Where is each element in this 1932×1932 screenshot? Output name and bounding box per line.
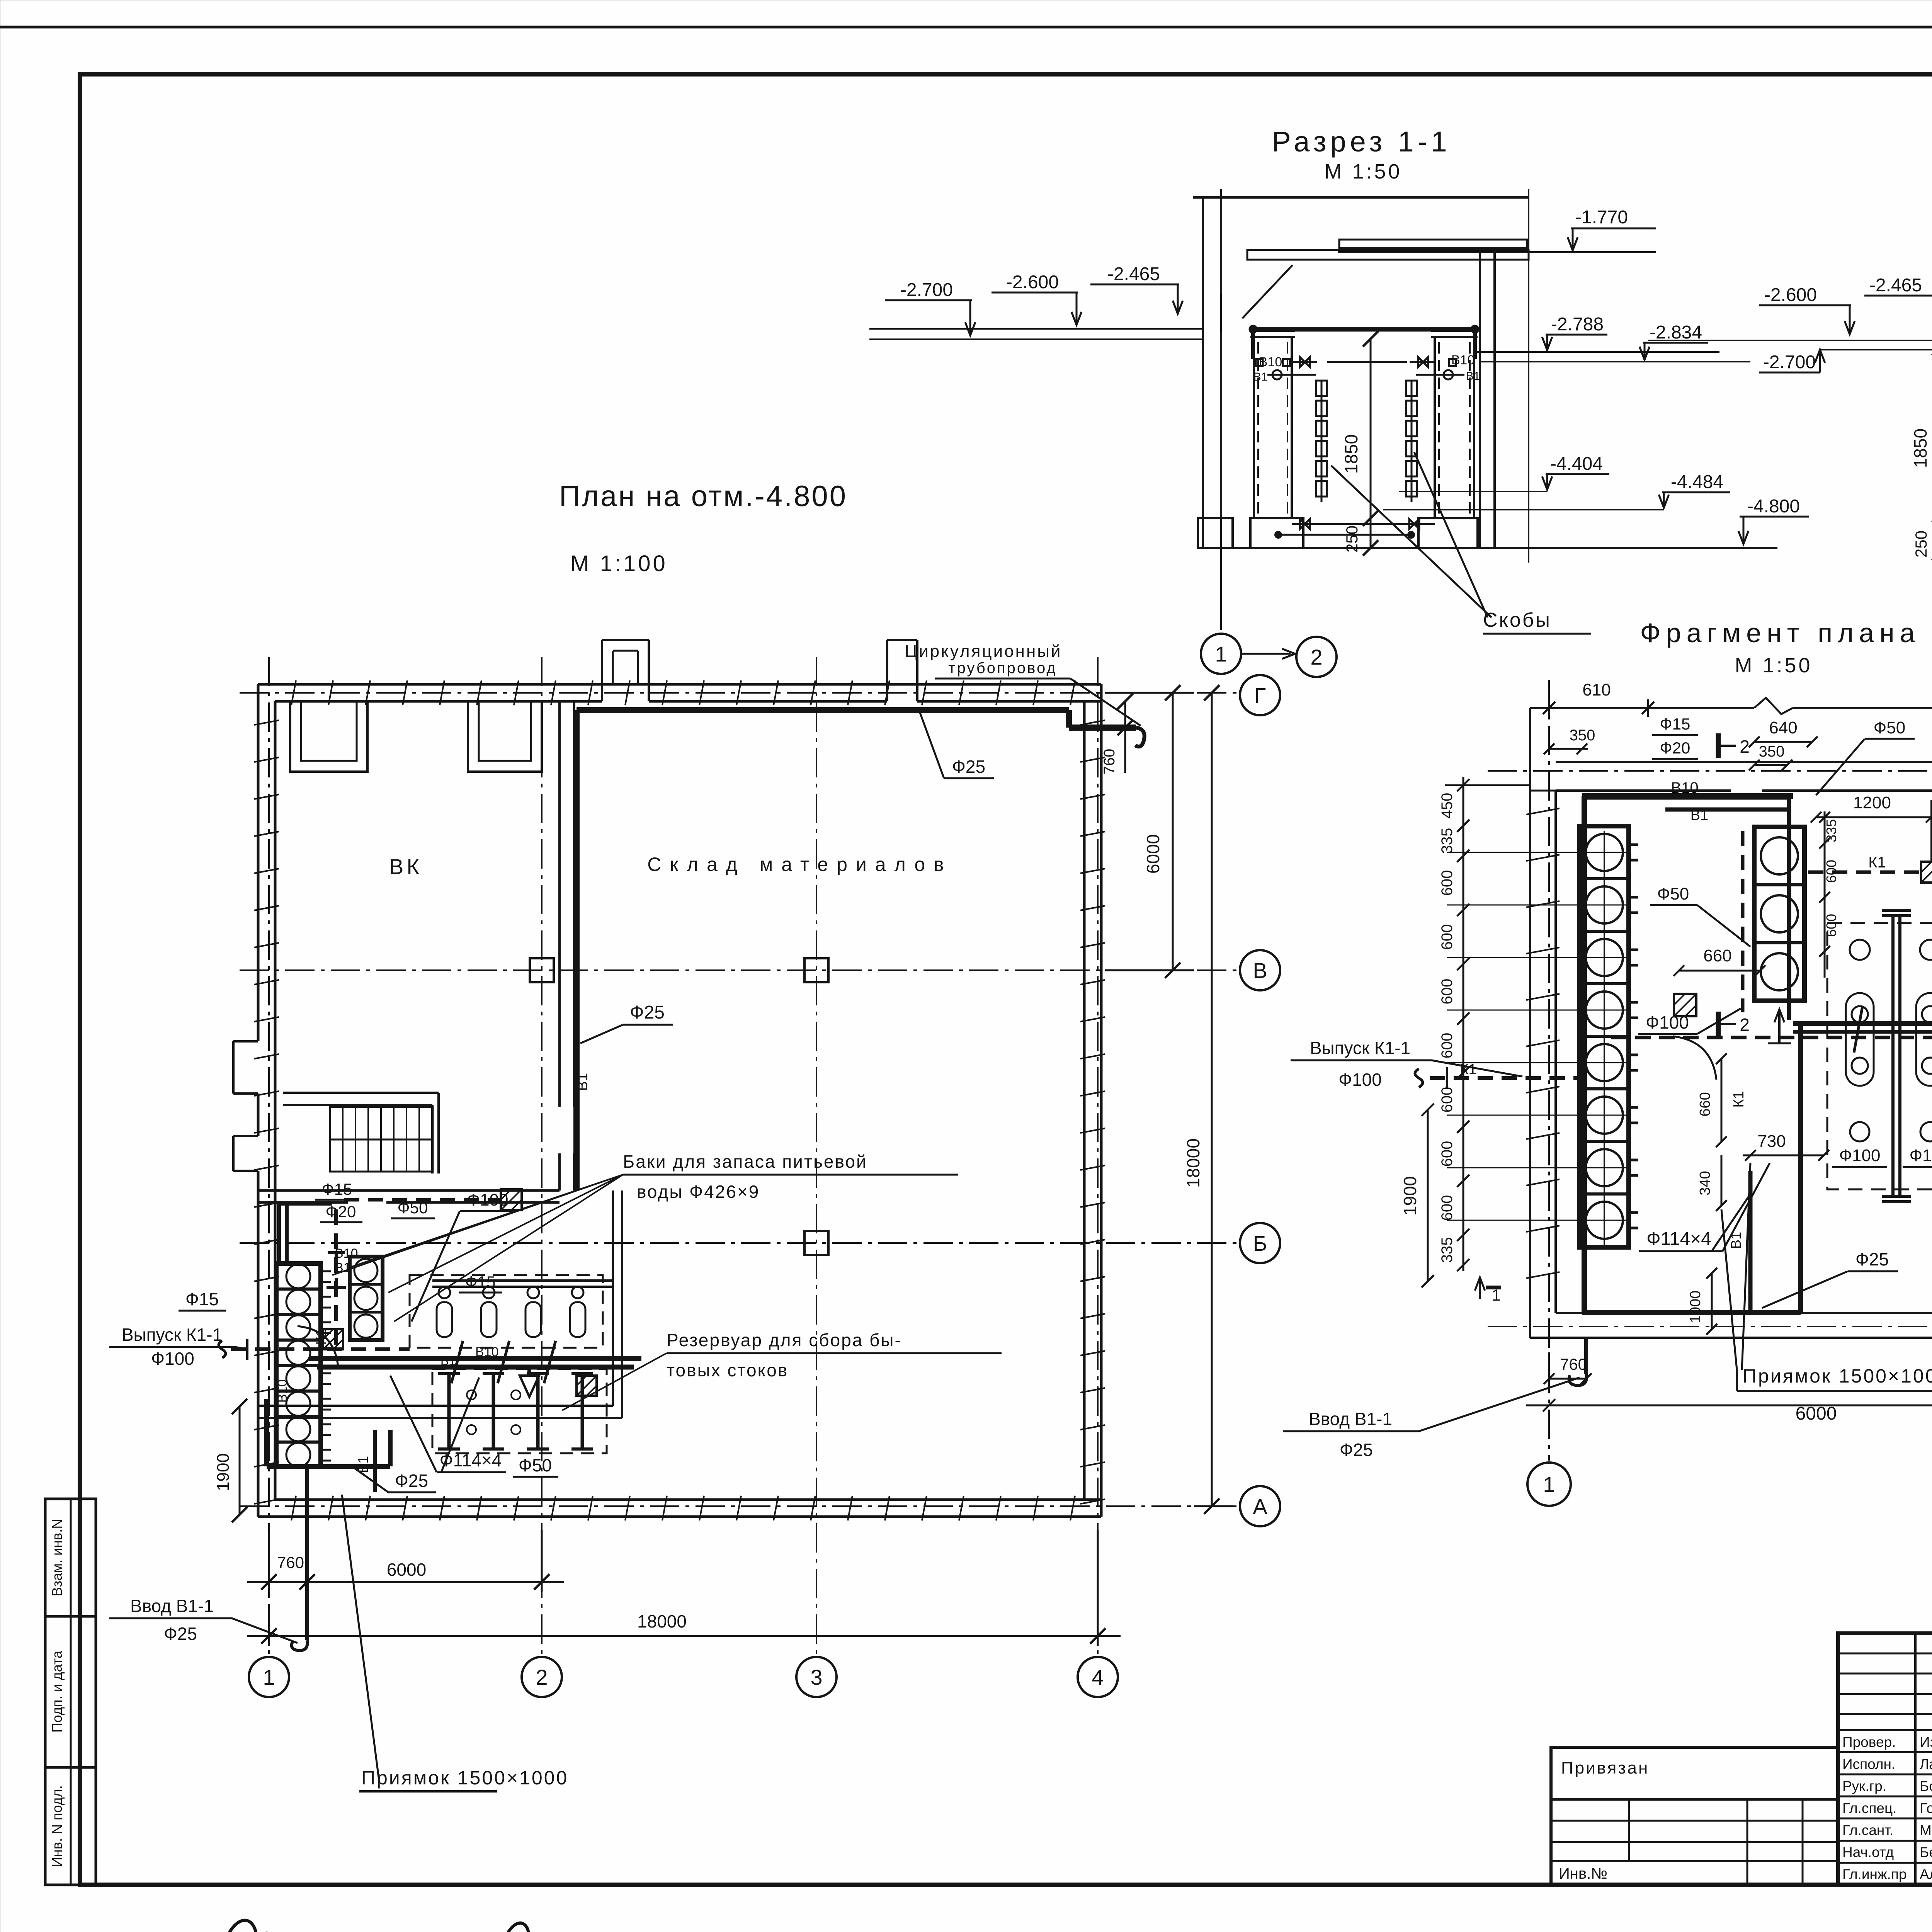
label Приямок 1500х1000: [342, 1495, 568, 1791]
label Баки для запаса питьевой воды: [332, 1151, 958, 1321]
fragment axis line А: [1488, 1326, 1932, 1327]
inner wall ВК/Склад: [560, 701, 574, 1190]
svg-text:Ф25: Ф25: [1340, 1440, 1373, 1460]
К1 dashed vertical: [334, 1209, 338, 1349]
svg-text:Гомон: Гомон: [1920, 1800, 1932, 1816]
svg-text:Ф15: Ф15: [185, 1289, 219, 1309]
svg-text:6000: 6000: [1796, 1403, 1837, 1424]
fragment dim 660 vertical: [1697, 1053, 1727, 1147]
level -4.800 (1-1): [1738, 496, 1809, 544]
svg-text:Гл.спец.: Гл.спец.: [1842, 1800, 1896, 1816]
svg-text:660: 660: [1703, 946, 1731, 965]
handwriting пров date коп: [165, 1920, 560, 1932]
svg-text:1850: 1850: [1910, 429, 1930, 468]
svg-text:пров.: пров.: [165, 1930, 209, 1932]
svg-text:Ввод В1-1: Ввод В1-1: [1309, 1409, 1392, 1429]
svg-text:1: 1: [1543, 1472, 1555, 1497]
tank circles: [286, 1264, 331, 1467]
svg-text:Фрагмент плана: Фрагмент плана: [1640, 618, 1920, 648]
section 1-1 valves bottom: [1275, 519, 1435, 538]
svg-text:Мафтер: Мафтер: [1920, 1822, 1932, 1838]
svg-text:Ф15: Ф15: [465, 1273, 496, 1291]
dim 18000 right: [1183, 685, 1233, 1514]
left margin box Инв. N подл.: [45, 1767, 96, 1885]
К1 dashed upper horizontal: [344, 1189, 522, 1210]
К1 dashed horizontal outlet: [219, 1339, 410, 1360]
svg-text:Ф50: Ф50: [1874, 718, 1905, 737]
svg-text:Резервуар для сбора бы-: Резервуар для сбора бы-: [667, 1330, 902, 1350]
level -2.600 left: [992, 272, 1082, 325]
level lines 2-2 left: [1648, 340, 1932, 350]
svg-text:1: 1: [263, 1665, 275, 1689]
section 1-1 dim 250: [1343, 518, 1378, 556]
axis circle 2: [522, 1657, 562, 1697]
svg-text:Ф25: Ф25: [952, 757, 985, 777]
svg-text:М 1:100: М 1:100: [570, 551, 668, 576]
svg-text:660: 660: [1697, 1092, 1713, 1116]
svg-text:Белан: Белан: [1920, 1844, 1932, 1860]
fragment mini chain 335/600/600: [1819, 811, 1839, 978]
svg-text:Бондаренко: Бондаренко: [1920, 1778, 1932, 1794]
outer wall left: [258, 684, 275, 1517]
svg-text:600: 600: [1439, 1033, 1456, 1059]
section 1-1 axis line 2: [1528, 189, 1529, 563]
svg-text:В1: В1: [1466, 370, 1480, 383]
fragment dim 660: [1673, 946, 1765, 976]
dim 760 bottom: [255, 1530, 321, 1592]
svg-text:К1: К1: [313, 1329, 329, 1345]
fragment К1 dashed horizontal top: [1808, 862, 1932, 883]
svg-text:-2.600: -2.600: [1764, 285, 1817, 305]
left margin box Взам. инв.N: [45, 1499, 96, 1616]
pipe В10 В1 pair into tank room: [277, 1204, 332, 1263]
fragment В1 riser right of tanks: [1787, 797, 1791, 1020]
svg-text:Приямок 1500×1000: Приямок 1500×1000: [361, 1767, 568, 1789]
section 1-1 ceiling slabs: [1242, 240, 1529, 318]
interior column squares: [530, 958, 554, 982]
svg-text:600: 600: [1439, 924, 1456, 950]
svg-text:Ф25: Ф25: [1855, 1249, 1889, 1269]
label Ф114х4: [390, 1376, 506, 1472]
label Ф15 mid: [459, 1273, 502, 1293]
fragment axis line 1: [1548, 680, 1550, 1461]
axis line Г: [240, 692, 1240, 694]
fragment bottom wall: [1530, 1294, 1932, 1338]
svg-text:В1: В1: [1728, 1232, 1744, 1249]
svg-text:Ф100: Ф100: [1910, 1146, 1932, 1165]
svg-text:Привязан: Привязан: [1561, 1759, 1649, 1777]
svg-text:1200: 1200: [1853, 793, 1891, 812]
fragment label Ф25 right: [1762, 1249, 1898, 1308]
axis circle 1: [249, 1657, 289, 1697]
fragment pipe band В10 В1 К1: [1611, 1007, 1932, 1053]
svg-text:Ф100: Ф100: [151, 1349, 194, 1369]
svg-text:трубопровод: трубопровод: [948, 660, 1057, 677]
svg-text:760: 760: [1560, 1355, 1587, 1373]
svg-text:В10: В10: [1259, 355, 1282, 369]
svg-text:2: 2: [1740, 1015, 1750, 1035]
svg-text:335: 335: [1439, 1237, 1456, 1263]
label Ввод В1-1 Ф25: [109, 1596, 298, 1644]
svg-text:-4.484: -4.484: [1671, 472, 1723, 492]
svg-text:1850: 1850: [1341, 434, 1361, 474]
pipe drop to reservoir: [529, 1367, 597, 1396]
fragment labels Ф15 Ф20: [1652, 715, 1698, 759]
svg-text:Ф15: Ф15: [1660, 715, 1690, 733]
svg-text:3: 3: [810, 1665, 822, 1689]
fragment flow arrow: [1768, 1009, 1791, 1043]
svg-text:Ф15: Ф15: [322, 1180, 352, 1198]
svg-text:Ф100: Ф100: [467, 1190, 509, 1209]
axis circle 3: [796, 1657, 837, 1697]
corridor wall: [283, 1093, 439, 1173]
svg-text:600: 600: [1439, 979, 1456, 1005]
section 1-1 pipe В10: [1250, 326, 1478, 359]
stall dividers: [438, 1374, 593, 1449]
title block grid: [1838, 1633, 1932, 1885]
tank room walls thick: [1582, 796, 1801, 1313]
axis line 2: [541, 657, 543, 1657]
svg-text:760: 760: [1101, 749, 1118, 775]
svg-text:-2.465: -2.465: [1107, 264, 1160, 284]
level lines into section: [869, 329, 1203, 339]
door arc: [298, 1326, 338, 1367]
svg-text:Альшиц: Альшиц: [1920, 1866, 1932, 1882]
svg-text:Выпуск К1-1: Выпуск К1-1: [1310, 1038, 1410, 1058]
section 1-1 labels В10 В1: [1253, 353, 1480, 383]
svg-text:Ф25: Ф25: [164, 1624, 197, 1644]
left wall pilaster 1: [233, 1041, 258, 1094]
fragment label Приямок: [1721, 1163, 1932, 1391]
fragment label Ф100: [1638, 1009, 1741, 1034]
level -2.788: [1542, 314, 1607, 350]
dim 1900 left: [214, 1399, 247, 1522]
svg-text:М 1:50: М 1:50: [1735, 654, 1812, 677]
fragment top wall: [1556, 762, 1932, 791]
svg-text:В10: В10: [1451, 353, 1475, 367]
outer wall top: [258, 684, 1101, 701]
svg-text:-1.770: -1.770: [1575, 207, 1628, 228]
svg-text:Подп. и дата: Подп. и дата: [49, 1650, 65, 1733]
section 1-1 right tank: [1431, 331, 1478, 518]
level -2.465 (2-2): [1864, 275, 1932, 321]
svg-text:-2.465: -2.465: [1869, 275, 1922, 296]
label Ф50: [391, 1199, 435, 1218]
axis line Б: [240, 1242, 1240, 1244]
section 1-1 right wall: [1480, 250, 1495, 548]
svg-text:760: 760: [277, 1553, 304, 1571]
svg-text:Ф100: Ф100: [1839, 1146, 1881, 1165]
paper top edge line: [0, 26, 1932, 29]
svg-text:В: В: [1253, 958, 1267, 983]
fragment pipe В10 top: [1586, 797, 1789, 810]
label Ф25 top: [920, 712, 994, 778]
svg-text:Ф25: Ф25: [395, 1471, 428, 1491]
svg-text:План на отм.-4.800: План на отм.-4.800: [559, 480, 847, 513]
axis circle Г: [1240, 675, 1280, 715]
svg-text:Выпуск К1-1: Выпуск К1-1: [122, 1325, 222, 1345]
svg-text:Гл.инж.пр: Гл.инж.пр: [1842, 1866, 1907, 1882]
section 1-1 top line: [1193, 196, 1529, 199]
label Резервуар для сбора бытовых стоков (plan): [562, 1330, 1002, 1410]
fragment labels Ф100 Ф100: [1832, 1146, 1932, 1167]
svg-text:-4.404: -4.404: [1550, 454, 1603, 474]
svg-text:К1: К1: [1731, 1091, 1747, 1107]
section 1-1 floor line: [1201, 547, 1777, 549]
svg-text:600: 600: [1439, 1141, 1456, 1167]
svg-text:Ф50: Ф50: [1657, 884, 1689, 903]
svg-text:2: 2: [1310, 645, 1322, 669]
svg-text:Ф100: Ф100: [1338, 1070, 1382, 1090]
svg-text:В1: В1: [1253, 371, 1268, 383]
svg-text:Ф20: Ф20: [326, 1202, 356, 1221]
svg-text:М 1:50: М 1:50: [1324, 160, 1402, 183]
dim 6000 bottom: [247, 1530, 564, 1592]
fragment dim 350 second: [1749, 743, 1793, 770]
svg-text:335: 335: [1823, 819, 1839, 842]
section 1-1 dim 1850: [1341, 331, 1378, 526]
svg-text:250: 250: [1912, 531, 1930, 558]
fragment dim 640: [1749, 718, 1818, 747]
axis line 4: [1097, 657, 1099, 1657]
svg-text:товых стоков: товых стоков: [667, 1360, 788, 1380]
svg-text:335: 335: [1439, 828, 1456, 854]
section 1-1 valves top: [1256, 357, 1464, 379]
label Скобы: [1331, 452, 1591, 634]
fragment reservoir dashed rect: [1827, 923, 1932, 1189]
fragment section mark 1: [1475, 1277, 1501, 1304]
svg-text:В1: В1: [1690, 807, 1708, 823]
fragment tank battery box: [1580, 826, 1629, 1247]
svg-text:В10: В10: [475, 1345, 499, 1359]
fragment dim 610: [1543, 680, 1654, 717]
svg-text:-2.600: -2.600: [1006, 272, 1059, 293]
svg-text:Провер.: Провер.: [1842, 1734, 1896, 1750]
fragment labels В10 В1 top: [1671, 779, 1708, 823]
section 2-2 dim 250: [1912, 514, 1932, 560]
svg-text:1900: 1900: [214, 1453, 233, 1491]
svg-text:В10: В10: [335, 1246, 358, 1261]
svg-text:610: 610: [1582, 680, 1611, 699]
vestibule room 2: [468, 701, 542, 772]
svg-text:Ф50: Ф50: [398, 1199, 428, 1217]
svg-text:Взам. инв.N: Взам. инв.N: [49, 1519, 65, 1596]
svg-text:600: 600: [1439, 1195, 1456, 1221]
svg-text:600: 600: [1439, 1087, 1456, 1113]
fragment dim 350: [1544, 727, 1595, 754]
fragment label Ф114х4: [1639, 1163, 1770, 1251]
sanitary block top wall: [258, 1190, 560, 1202]
svg-text:340: 340: [1697, 1171, 1713, 1195]
svg-text:Гл.сант.: Гл.сант.: [1842, 1822, 1893, 1838]
label Ф100 (upper): [412, 1190, 514, 1321]
svg-text:Изюмова: Изюмова: [1920, 1734, 1932, 1750]
svg-text:-2.700: -2.700: [900, 280, 953, 300]
level -4.404: [1542, 454, 1609, 490]
table Привязан: [1551, 1747, 1838, 1885]
fragment dim 340 vertical: [1697, 1155, 1727, 1211]
fragment left wall hatch: [1526, 808, 1560, 1278]
pipe slashes: [451, 1341, 556, 1383]
level -1.770: [1568, 207, 1656, 250]
pipe fittings cross: [327, 1253, 346, 1297]
pipe В1 top horizontal: [577, 710, 1145, 747]
svg-text:Ф100: Ф100: [1646, 1012, 1689, 1032]
axis line 1: [268, 657, 270, 1657]
fragment label Ввод В1-1: [1283, 1378, 1580, 1460]
svg-text:350: 350: [1759, 743, 1785, 760]
fragment building left wall: [1530, 708, 1556, 1338]
svg-text:воды Ф426×9: воды Ф426×9: [637, 1182, 760, 1202]
stair flights: [330, 1107, 433, 1172]
label Ф25 mid: [580, 1002, 673, 1043]
labels В10 В1 on band: [440, 1345, 499, 1368]
outer wall right: [1084, 684, 1101, 1517]
upper tank trio box: [350, 1257, 383, 1340]
svg-text:Ф25: Ф25: [630, 1002, 665, 1023]
level -2.834: [1639, 322, 1708, 360]
svg-text:Ввод В1-1: Ввод В1-1: [130, 1596, 214, 1616]
top wall porch 1: [602, 640, 649, 701]
svg-text:Нач.отд: Нач.отд: [1842, 1844, 1894, 1860]
svg-text:Приямок 1500×1000: Приямок 1500×1000: [1743, 1365, 1932, 1387]
title block names: [1842, 1734, 1932, 1882]
dim 6000 right: [1105, 685, 1194, 978]
fragment dim 6000 bottom: [1526, 1399, 1932, 1424]
svg-text:1: 1: [1492, 1286, 1500, 1304]
svg-text:2: 2: [536, 1665, 548, 1689]
section 2-2 dim 1850: [1910, 340, 1932, 522]
sanitary block bottom wall: [258, 1406, 622, 1418]
svg-text:Инв. N подл.: Инв. N подл.: [49, 1785, 65, 1867]
svg-text:640: 640: [1769, 718, 1797, 737]
label Ф15 margin: [179, 1289, 226, 1311]
level -2.600 (2-2): [1759, 285, 1855, 334]
level -2.700 (2-2): [1759, 350, 1825, 372]
section 1-1 left wall: [1203, 197, 1221, 548]
pipe band В1+В10 horizontal: [309, 1359, 641, 1367]
svg-text:-2.700: -2.700: [1763, 352, 1816, 372]
fragment door arc: [1673, 1036, 1716, 1080]
svg-text:4: 4: [1092, 1665, 1104, 1689]
fragment К1 dashed vertical: [1741, 831, 1745, 1012]
reservoir dashed area (plan): [432, 1369, 607, 1453]
fragment cut edge top: [1530, 698, 1932, 714]
svg-text:730: 730: [1757, 1132, 1786, 1151]
level -2.465 left: [1090, 264, 1183, 314]
svg-text:Г: Г: [1254, 683, 1266, 707]
section 1-1 ladder скобы right: [1406, 381, 1417, 502]
fragment dim 1000 vertical: [1687, 1268, 1717, 1335]
svg-text:600: 600: [1823, 914, 1839, 937]
svg-text:18000: 18000: [1183, 1138, 1203, 1188]
fragment dim 1900: [1400, 1104, 1434, 1287]
svg-text:Циркуляционный: Циркуляционный: [905, 642, 1062, 661]
svg-text:27. 5. 86г: 27. 5. 86г: [326, 1929, 422, 1932]
fragment left dim chain: [1439, 777, 1530, 1271]
fragment dim 760: [1544, 1352, 1592, 1387]
svg-text:В1: В1: [575, 1073, 591, 1091]
svg-text:-2.788: -2.788: [1551, 314, 1604, 335]
label Ф20: [320, 1202, 362, 1222]
fragment fixtures keyholes: [1846, 940, 1932, 1141]
svg-text:Склад материалов: Склад материалов: [647, 854, 952, 875]
svg-text:1000: 1000: [1687, 1291, 1704, 1323]
svg-text:18000: 18000: [637, 1611, 687, 1631]
svg-text:-4.800: -4.800: [1747, 496, 1800, 517]
section 1-1 arrow to 2: [1242, 649, 1295, 659]
label Циркуляционный трубопровод: [905, 642, 1141, 726]
fragment axis circle 1: [1527, 1463, 1571, 1506]
washbasins: [437, 1287, 585, 1337]
tank battery box: [276, 1264, 321, 1466]
svg-text:ВК: ВК: [389, 854, 422, 879]
svg-text:6000: 6000: [387, 1560, 426, 1580]
fragment middle tank box: [1754, 827, 1804, 1001]
funnel symbol: [520, 1376, 539, 1397]
label Ф15 small left: [315, 1180, 359, 1200]
pipe В1 vertical (Ф25 riser): [573, 710, 580, 1190]
section 1-1 axis circle 2: [1296, 637, 1337, 677]
fragment drain square: [1674, 994, 1696, 1016]
svg-text:450: 450: [1439, 793, 1456, 819]
svg-text:1: 1: [1215, 642, 1227, 666]
fragment К1 outlet left: [1415, 1061, 1584, 1089]
Приямок pit walls: [267, 1399, 390, 1466]
washbasin area dashed: [410, 1275, 603, 1348]
svg-text:Баки для запаса питьевой: Баки для запаса питьевой: [623, 1151, 867, 1172]
dim 760 top right: [1101, 694, 1133, 774]
svg-text:Ф50: Ф50: [519, 1455, 552, 1475]
left wall pilaster 2: [233, 1136, 258, 1171]
outer wall bottom: [258, 1500, 1101, 1517]
drain square in tank room: [323, 1329, 343, 1349]
svg-text:Скобы: Скобы: [1483, 609, 1551, 631]
sanitary block right wall: [613, 1190, 622, 1418]
section 1-1 foundation pads: [1198, 518, 1478, 548]
axis circle В: [1240, 950, 1280, 990]
pipe Ввод В1-1: [292, 1466, 308, 1650]
label Ф25 bottom: [355, 1468, 436, 1492]
svg-text:В10: В10: [1671, 779, 1698, 796]
dim 18000 bottom: [247, 1530, 1121, 1646]
svg-text:Рук.гр.: Рук.гр.: [1842, 1778, 1886, 1794]
svg-text:6000: 6000: [1143, 834, 1163, 874]
axis circle Б: [1240, 1223, 1280, 1263]
axis line 3: [816, 657, 817, 1657]
wall hatch ticks: [254, 680, 1105, 1520]
fragment Ввод В1-1 pipe: [1569, 1338, 1587, 1385]
svg-text:Разрез 1-1: Разрез 1-1: [1272, 126, 1451, 158]
svg-text:600: 600: [1439, 870, 1456, 896]
svg-text:Исполн.: Исполн.: [1842, 1756, 1895, 1772]
fragment label Выпуск К1-1: [1291, 1038, 1522, 1090]
fragment tank circles: [1447, 831, 1638, 1248]
fragment label Ф50 top: [1816, 718, 1915, 795]
fragment section mark 2 top: [1718, 733, 1750, 758]
section 1-1 axis circle 1: [1201, 634, 1241, 674]
svg-text:К1: К1: [1868, 854, 1886, 871]
sanitary partition: [432, 1281, 613, 1287]
svg-text:2: 2: [1740, 736, 1750, 757]
svg-text:350: 350: [1570, 727, 1595, 744]
level -2.700 left: [885, 280, 975, 335]
fragment dim 730: [1743, 1132, 1829, 1161]
svg-text:А: А: [1253, 1494, 1267, 1519]
labels В10 В1: [335, 1246, 358, 1275]
fragment dim 1200: [1811, 793, 1932, 862]
axis line А: [240, 1505, 1240, 1507]
